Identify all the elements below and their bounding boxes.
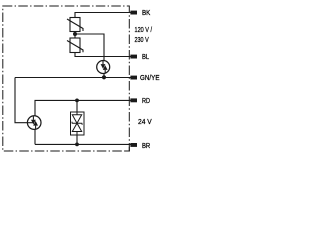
- label BK: [142, 8, 150, 17]
- wire BR line to terminal BR: [35, 143, 131, 145]
- svg-text:230 V: 230 V: [135, 35, 149, 44]
- terminal BK: [130, 11, 137, 15]
- varistor RV1: [67, 18, 83, 32]
- gas discharge tube F2 (3-electrode spark gap): [27, 116, 41, 130]
- wire F1 bottom to GN/YE line: [103, 73, 105, 77]
- label RD: [142, 96, 150, 105]
- wire from RV1 to RV2 through midpoint: [74, 32, 76, 39]
- label BR: [142, 141, 151, 150]
- wire BL line from varistor RV2 bottom to terminal BL: [75, 53, 131, 57]
- wire BK line from varistor RV1 top to terminal BK: [75, 13, 131, 18]
- svg-text:GN/YE: GN/YE: [140, 73, 160, 82]
- svg-text:120 V /: 120 V /: [135, 25, 153, 34]
- terminal GN/YE: [130, 76, 137, 80]
- terminal RD: [130, 98, 137, 102]
- enclosure boundary (dash-dot outline of protective device): [3, 6, 130, 152]
- svg-text:BK: BK: [142, 8, 150, 17]
- svg-text:RD: RD: [142, 96, 150, 105]
- wire suppressor diode V1 to BR line: [76, 135, 78, 145]
- wire GN/YE line to terminal GN/YE: [15, 77, 131, 79]
- varistor RV2: [67, 38, 83, 53]
- svg-text:24 V: 24 V: [138, 117, 152, 126]
- wire RD line from corner to terminal RD: [35, 100, 131, 116]
- svg-text:BL: BL: [142, 52, 149, 61]
- label 230 V: [135, 35, 149, 44]
- node: F1 to GN/YE junction: [102, 75, 106, 79]
- wire PE branch from GN/YE line down to spark gap F2 center electrode: [15, 78, 28, 123]
- label 120 V /: [135, 25, 153, 34]
- label BL: [142, 52, 149, 61]
- gas discharge tube F1 (2-electrode spark gap): [97, 61, 110, 74]
- svg-text:BR: BR: [142, 141, 151, 150]
- terminal BL: [130, 55, 137, 59]
- wire midpoint to spark gap F1 (crosses BL wire without junction): [75, 34, 104, 61]
- node: BR to suppressor junction: [75, 143, 79, 147]
- wire F2 bottom to BR line: [34, 129, 36, 144]
- node: varistor midpoint junction: [73, 32, 77, 36]
- label GN/YE: [140, 73, 160, 82]
- suppressor diode V1 (bidirectional TVS in box): [71, 112, 85, 135]
- terminal BR: [130, 143, 137, 147]
- label 24 V: [138, 117, 152, 126]
- wire RD line down to suppressor diode V1: [76, 100, 78, 112]
- node: RD to suppressor junction: [75, 99, 79, 103]
